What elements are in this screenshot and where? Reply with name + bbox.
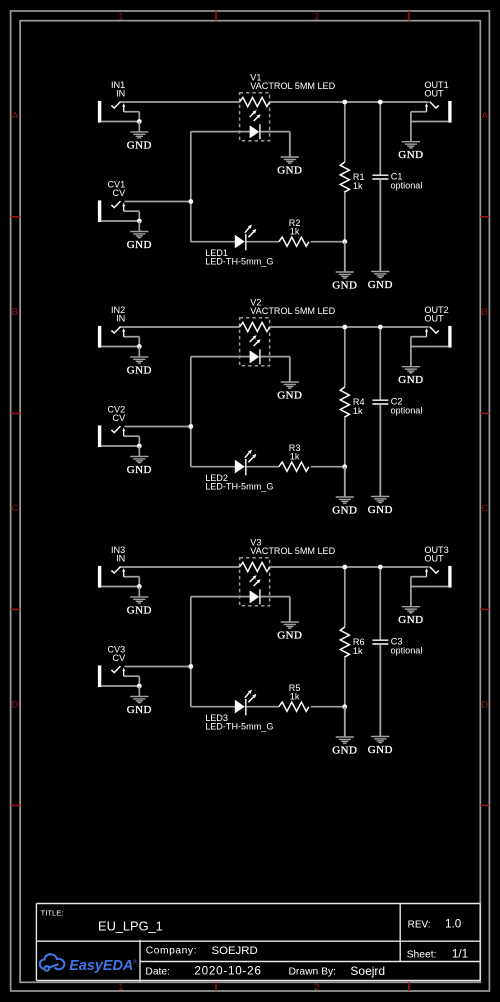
- svg-text:LED-TH-5mm_G: LED-TH-5mm_G: [205, 256, 273, 266]
- svg-text:GND: GND: [127, 364, 152, 376]
- svg-text:D: D: [12, 699, 19, 709]
- svg-text:2: 2: [314, 11, 319, 21]
- svg-text:GND: GND: [398, 149, 423, 161]
- svg-text:CV: CV: [113, 413, 127, 423]
- svg-text:optional: optional: [391, 645, 423, 655]
- svg-text:1k: 1k: [353, 406, 363, 416]
- svg-text:GND: GND: [368, 504, 393, 516]
- svg-text:EU_LPG_1: EU_LPG_1: [98, 919, 163, 934]
- svg-text:1/1: 1/1: [452, 948, 468, 961]
- svg-text:TITLE:: TITLE:: [41, 909, 64, 918]
- svg-text:GND: GND: [398, 374, 423, 386]
- svg-text:1k: 1k: [290, 451, 300, 461]
- svg-text:C: C: [12, 503, 19, 513]
- svg-text:1k: 1k: [290, 226, 300, 236]
- svg-text:GND: GND: [332, 505, 357, 517]
- svg-text:VACTROL 5MM LED: VACTROL 5MM LED: [250, 546, 335, 556]
- svg-text:GND: GND: [277, 390, 302, 402]
- svg-text:D: D: [481, 699, 488, 709]
- svg-text:B: B: [482, 307, 488, 317]
- svg-text:1k: 1k: [290, 691, 300, 701]
- svg-text:GND: GND: [277, 630, 302, 642]
- svg-text:Soejrd: Soejrd: [350, 964, 385, 978]
- svg-text:2020-10-26: 2020-10-26: [194, 965, 261, 978]
- svg-text:2: 2: [314, 982, 319, 992]
- svg-text:®: ®: [133, 959, 137, 966]
- svg-text:GND: GND: [127, 239, 152, 251]
- svg-text:IN: IN: [116, 554, 125, 564]
- svg-text:CV: CV: [113, 653, 127, 663]
- svg-text:OUT: OUT: [424, 554, 444, 564]
- svg-text:GND: GND: [127, 139, 152, 151]
- svg-text:optional: optional: [391, 180, 423, 190]
- svg-text:IN: IN: [116, 314, 125, 324]
- svg-text:GND: GND: [368, 744, 393, 756]
- svg-text:LED-TH-5mm_G: LED-TH-5mm_G: [205, 721, 273, 731]
- svg-text:GND: GND: [398, 614, 423, 626]
- svg-text:Date:: Date:: [145, 967, 170, 978]
- svg-text:GND: GND: [368, 279, 393, 291]
- svg-text:Drawn By:: Drawn By:: [289, 967, 337, 978]
- svg-text:CV: CV: [113, 188, 127, 198]
- svg-text:OUT: OUT: [424, 314, 444, 324]
- svg-text:REV:: REV:: [408, 920, 431, 931]
- svg-text:SOEJRD: SOEJRD: [212, 945, 258, 957]
- svg-text:GND: GND: [127, 604, 152, 616]
- svg-text:B: B: [12, 307, 18, 317]
- svg-text:GND: GND: [332, 745, 357, 757]
- svg-text:C: C: [481, 503, 488, 513]
- svg-text:GND: GND: [127, 704, 152, 716]
- svg-text:optional: optional: [391, 405, 423, 415]
- svg-text:LED-TH-5mm_G: LED-TH-5mm_G: [205, 481, 273, 491]
- svg-text:1: 1: [118, 982, 123, 992]
- svg-text:IN: IN: [116, 89, 125, 99]
- svg-text:GND: GND: [332, 280, 357, 292]
- svg-text:1: 1: [118, 11, 123, 21]
- svg-text:EasyEDA: EasyEDA: [69, 958, 133, 974]
- svg-text:GND: GND: [127, 464, 152, 476]
- svg-text:VACTROL 5MM LED: VACTROL 5MM LED: [250, 81, 335, 91]
- svg-text:1.0: 1.0: [445, 918, 462, 931]
- svg-text:GND: GND: [277, 165, 302, 177]
- svg-text:Company:: Company:: [146, 946, 197, 957]
- svg-text:1k: 1k: [353, 181, 363, 191]
- svg-text:OUT: OUT: [424, 89, 444, 99]
- svg-text:A: A: [12, 111, 19, 121]
- svg-text:VACTROL 5MM LED: VACTROL 5MM LED: [250, 306, 335, 316]
- svg-text:Sheet:: Sheet:: [407, 949, 437, 960]
- svg-text:A: A: [482, 111, 489, 121]
- svg-text:1k: 1k: [353, 646, 363, 656]
